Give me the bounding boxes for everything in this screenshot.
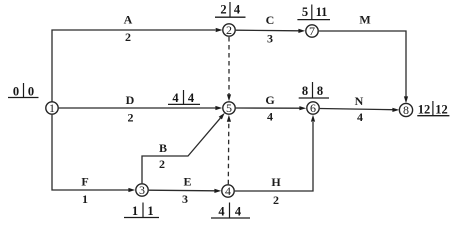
svg-text:2: 2 (220, 2, 226, 16)
node 3 circle (136, 184, 148, 196)
svg-text:4: 4 (218, 204, 225, 218)
svg-text:4: 4 (225, 184, 231, 198)
arrowhead N into 8 (392, 108, 399, 112)
svg-text:5: 5 (302, 5, 308, 19)
wire C path 2 to 7 (236, 29, 299, 32)
svg-text:6: 6 (310, 101, 316, 115)
svg-text:B: B (159, 141, 167, 155)
node 2 circle (223, 24, 235, 36)
node 6 circle (307, 102, 319, 114)
node 8 time label 12|12 (417, 101, 449, 116)
svg-text:E: E (183, 175, 191, 189)
wire B path 3 to 5 (142, 118, 221, 183)
svg-text:H: H (271, 175, 281, 189)
wire M path 7 to 8 (319, 31, 406, 97)
svg-text:5: 5 (226, 101, 232, 115)
arrowhead dummy into 5 bottom (227, 115, 231, 122)
node 8 circle (399, 103, 412, 116)
wire D path 1 to 5 (59, 107, 216, 109)
svg-text:3: 3 (182, 192, 188, 206)
svg-text:M: M (359, 13, 370, 27)
node 4 time label 4|4 (211, 203, 250, 219)
svg-text:4: 4 (235, 204, 242, 218)
node 4 circle (222, 185, 234, 197)
svg-text:3: 3 (267, 32, 273, 46)
node 1 circle (46, 102, 58, 114)
svg-text:4: 4 (188, 91, 195, 105)
svg-text:12: 12 (435, 102, 448, 116)
svg-text:4: 4 (267, 110, 273, 124)
svg-text:F: F (81, 175, 88, 189)
arrowhead M into 8 (404, 96, 408, 103)
svg-text:2: 2 (125, 30, 131, 44)
node 7 circle (306, 25, 318, 37)
svg-text:12: 12 (418, 102, 431, 116)
svg-text:2: 2 (273, 193, 279, 207)
svg-text:2: 2 (128, 111, 134, 125)
svg-text:1: 1 (49, 101, 55, 115)
wire A path 1 to 2 (52, 30, 216, 102)
arrowhead E into 4 (214, 189, 221, 193)
node 7 time label 5|11 (297, 5, 330, 20)
svg-text:4: 4 (357, 110, 363, 124)
arrowhead dummy into 5 top (227, 94, 231, 101)
wire dummy 4 to 5 dashed (227, 122, 230, 184)
node 6 time label 8|8 (299, 82, 329, 98)
svg-text:1: 1 (132, 204, 138, 218)
wire H path 4 to 6 (235, 122, 313, 191)
arrowhead B into 5 (219, 113, 225, 120)
svg-text:A: A (124, 13, 133, 27)
svg-text:2: 2 (159, 157, 165, 171)
node 5 time label 4|4 (168, 90, 200, 105)
svg-text:2: 2 (226, 23, 232, 37)
arrowhead A into 2 (216, 28, 223, 32)
node 5 circle (223, 102, 235, 114)
svg-text:4: 4 (172, 91, 179, 105)
arrowhead H into 6 (311, 115, 315, 122)
wire G path 5 to 6 (236, 107, 300, 109)
svg-text:8: 8 (302, 84, 308, 98)
svg-text:0: 0 (28, 85, 34, 99)
arrowhead C into 7 (298, 29, 305, 33)
arrowhead D into 5 (215, 106, 222, 110)
svg-text:8: 8 (317, 84, 323, 98)
svg-text:C: C (266, 13, 275, 27)
svg-text:G: G (265, 93, 274, 107)
node 1 time label 0|0 (8, 83, 39, 99)
node 2 time label 2|4 (215, 2, 246, 17)
wire N path 6 to 8 (320, 109, 393, 110)
node 3 time label 1|1 (124, 203, 159, 219)
arrowhead F into 3 (128, 188, 135, 192)
svg-text:3: 3 (139, 183, 145, 197)
svg-text:D: D (126, 93, 135, 107)
svg-text:8: 8 (403, 103, 409, 117)
wire dummy 2 to 5 dashed (228, 37, 230, 95)
svg-text:1: 1 (147, 204, 153, 218)
svg-text:1: 1 (82, 192, 88, 206)
svg-text:0: 0 (13, 85, 19, 99)
wire F path 1 to 3 (52, 115, 129, 190)
svg-text:11: 11 (316, 5, 328, 19)
svg-text:N: N (355, 94, 364, 108)
svg-text:4: 4 (234, 2, 241, 16)
arrowhead G into 6 (299, 106, 306, 110)
wire E path 3 to 4 (149, 189, 215, 192)
svg-text:7: 7 (309, 24, 315, 38)
